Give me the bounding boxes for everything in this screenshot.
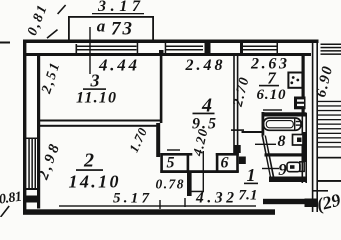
svg-text:1: 1 (247, 165, 256, 185)
svg-text:3: 3 (90, 71, 100, 91)
svg-text:6.10: 6.10 (257, 87, 287, 103)
svg-text:6: 6 (221, 155, 229, 172)
svg-text:8: 8 (278, 133, 286, 150)
svg-text:14.10: 14.10 (69, 172, 119, 192)
svg-text:4.44: 4.44 (98, 56, 137, 75)
svg-text:11.10: 11.10 (76, 90, 116, 107)
svg-text:9: 9 (278, 160, 287, 179)
svg-text:4.32: 4.32 (195, 190, 234, 207)
svg-text:7.1: 7.1 (239, 188, 258, 204)
svg-text:2: 2 (83, 150, 94, 172)
svg-text:3.17: 3.17 (97, 0, 141, 15)
svg-text:5.17: 5.17 (113, 191, 150, 207)
svg-text:a: a (97, 17, 106, 36)
svg-text:5: 5 (167, 155, 175, 172)
svg-text:0.78: 0.78 (156, 177, 184, 192)
svg-text:2.48: 2.48 (185, 57, 223, 74)
